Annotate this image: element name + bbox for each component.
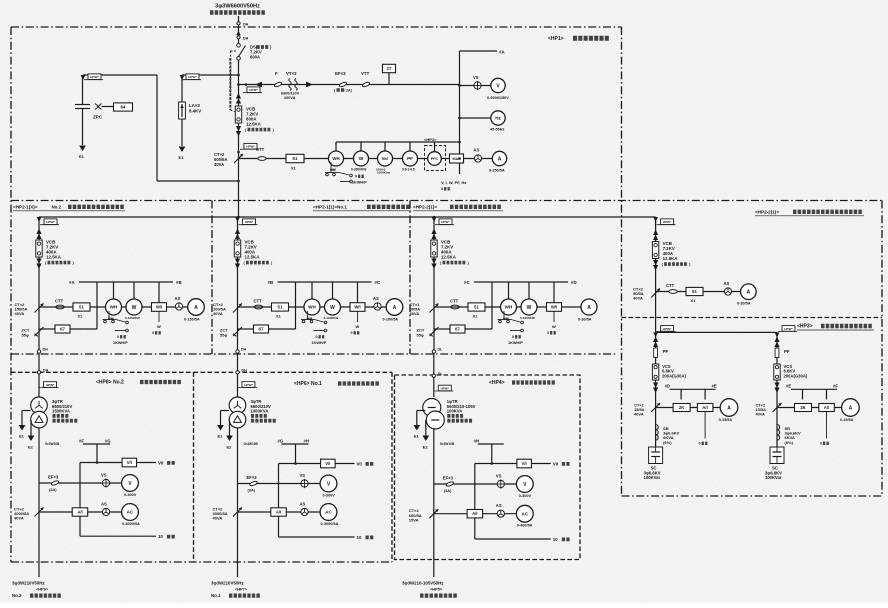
meter W HP2-1X: [126, 299, 142, 315]
svg-text:X1: X1: [473, 314, 479, 319]
wire ZPC branch L down: [156, 75, 158, 181]
svg-text:1500KVA: 1500KVA: [52, 409, 70, 414]
relay box 51 HP2-2(1): [468, 303, 485, 311]
svg-text:40VA: 40VA: [213, 311, 223, 316]
meter Hz HP1: [460, 117, 491, 119]
drawout arrows above VCB HP1: [236, 93, 241, 99]
relay box 27: [383, 64, 396, 72]
drawout arrows above VCB HP2-2(1): [431, 229, 436, 235]
panel border HP2 band bottom: [11, 353, 616, 355]
meter AC HP4: [516, 505, 533, 522]
svg-text:PF: PF: [663, 349, 669, 354]
potential bus HP3 branch 1: [670, 388, 716, 390]
ground E2 HP8: [30, 420, 32, 436]
ground E1 HP6: [221, 410, 230, 412]
svg-text:HPW*: HPW*: [246, 145, 255, 149]
svg-text:0: 0: [117, 335, 119, 339]
svg-text:#E: #E: [786, 384, 791, 389]
ground E1 HP8: [22, 410, 31, 412]
svg-text:W: W: [157, 324, 161, 329]
svg-text:HPW*: HPW*: [249, 88, 258, 92]
meter A HP2-1(1): [386, 299, 403, 316]
svg-text:No.2: No.2: [52, 205, 62, 210]
contact outputs WH HP1: [330, 162, 332, 173]
svg-text:DH: DH: [243, 23, 249, 27]
meter A HP3 branch 2: [842, 399, 860, 417]
svg-text:VS: VS: [496, 474, 502, 479]
svg-text:ZPC: ZPC: [93, 115, 103, 120]
svg-text:0-400/5A: 0-400/5A: [517, 524, 533, 528]
svg-text:X1: X1: [691, 298, 697, 303]
ground E2 HP4: [425, 420, 427, 436]
capacitor ZPC: [75, 104, 90, 106]
drawout arrow up HP3 branch 1: [653, 337, 658, 343]
current transformer HP2-1(1): [233, 304, 242, 313]
svg-text:<HP2-2(1)>: <HP2-2(1)>: [413, 205, 437, 210]
svg-text:W: W: [552, 324, 556, 329]
meter Var HP1: [378, 151, 393, 166]
svg-text:(3A): (3A): [444, 488, 452, 493]
svg-text:HPW*: HPW*: [245, 220, 254, 224]
svg-text:<HP9>: <HP9>: [36, 587, 49, 592]
svg-text:E1: E1: [79, 154, 85, 159]
drawout arrows below VCS HP3 branch 1: [653, 383, 658, 389]
svg-text:3φ3W210V50Hz: 3φ3W210V50Hz: [12, 581, 45, 586]
svg-text:#G: #G: [278, 439, 284, 444]
svg-text:10: 10: [357, 535, 362, 540]
metering wire HP2-2X: [656, 291, 741, 293]
meter A HP3 branch 1: [720, 399, 738, 417]
svg-text:55φ: 55φ: [417, 332, 424, 337]
svg-text:A/I: A/I: [77, 510, 82, 515]
svg-text:A: A: [849, 405, 853, 411]
svg-text:55φ: 55φ: [220, 332, 227, 337]
spark gap ZPC: [95, 104, 102, 110]
svg-text:CTT: CTT: [450, 299, 459, 304]
meter A HP1: [492, 151, 506, 165]
tag HPW LA branch: [182, 79, 201, 81]
svg-text:A: A: [587, 305, 591, 311]
svg-text:64: 64: [121, 105, 126, 110]
svg-text:VS: VS: [300, 473, 306, 478]
svg-text:X1: X1: [78, 314, 84, 319]
zero phase CT HP2-2(1): [430, 327, 439, 336]
node DH upper disconnect point: [237, 22, 240, 25]
svg-text:CTT: CTT: [254, 299, 263, 304]
svg-text:0-1000KW: 0-1000KW: [520, 316, 535, 320]
potential bus wire HP2-2(1): [474, 281, 568, 283]
transducer box A/I HP4: [467, 510, 483, 518]
svg-text:27: 27: [387, 66, 392, 71]
panel border HP1 right / HP2-2X left / HP3 left vertical: [621, 27, 623, 496]
svg-text:0-9000/150V: 0-9000/150V: [487, 96, 509, 100]
wire ZPC branch horizontal: [83, 74, 157, 76]
current transformer CTx2 HP1: [234, 154, 243, 163]
output wire below A/I HP3 branch 2: [826, 412, 828, 439]
meter WH HP2-2(1): [501, 299, 517, 315]
bus HP2 band: [39, 216, 656, 218]
svg-text:1000KVA: 1000KVA: [251, 409, 269, 414]
svg-text:DH: DH: [43, 368, 49, 372]
svg-text:A: A: [393, 305, 397, 311]
contactor VCS HP3 branch 2: [774, 364, 780, 380]
svg-text:Hz: Hz: [495, 116, 501, 121]
node DH lower point: [237, 36, 240, 39]
svg-text:0-15/5A: 0-15/5A: [840, 418, 854, 422]
output wire below A/I HP3 branch 1: [704, 412, 706, 439]
feeder wire HP2-1X: [38, 217, 40, 350]
panel border HP8/HP6 separator: [193, 372, 195, 562]
svg-text:67: 67: [60, 327, 65, 332]
transducer box V/I HP6: [321, 459, 336, 468]
svg-text:10: 10: [553, 537, 558, 542]
svg-text:A: A: [498, 156, 502, 162]
svg-text:DL: DL: [438, 348, 444, 352]
svg-text:2K: 2K: [679, 405, 684, 410]
svg-text:0: 0: [512, 335, 514, 339]
svg-text:#A: #A: [69, 280, 75, 285]
svg-text:0-150/5A: 0-150/5A: [184, 318, 200, 322]
svg-text:#C: #C: [375, 280, 381, 285]
tap arrow HP3 branch 2: [775, 332, 780, 337]
svg-text:40VA: 40VA: [15, 311, 25, 316]
meter WH HP1: [329, 151, 344, 166]
capacitor SC HP3 branch 1: [649, 447, 663, 464]
svg-text:#F: #F: [79, 439, 84, 444]
tap arrow ZPC branch: [81, 75, 86, 80]
svg-text:AC: AC: [127, 510, 134, 515]
circuit breaker VCB HP1: [235, 106, 241, 123]
svg-text:VTT: VTT: [361, 71, 370, 76]
wire LA branch horizontal: [182, 74, 239, 76]
svg-text:E2: E2: [227, 445, 233, 450]
svg-text:#F: #F: [833, 384, 838, 389]
svg-text:HPW*: HPW*: [441, 386, 450, 390]
transducer box A/I HP3 branch 1: [697, 404, 713, 412]
drawout arrows below VCB HP2-1(1): [235, 259, 240, 265]
svg-text:DH: DH: [242, 368, 248, 372]
tag HPW HP2-1(1): [239, 224, 258, 226]
wire LA vertical: [181, 75, 183, 102]
svg-text:A: A: [194, 305, 198, 311]
svg-text:2K: 2K: [800, 405, 805, 410]
series reactor SR HP3 branch 2: [777, 425, 780, 441]
panel border HP6 top: [194, 371, 393, 373]
transducer output W HP2-1(1): [357, 311, 359, 322]
transducer V/I wire HP6: [279, 463, 321, 465]
drawout arrows below VCS HP3 branch 2: [774, 383, 779, 389]
svg-text:EF×3: EF×3: [335, 71, 346, 76]
meter V HP4: [516, 476, 533, 493]
potential bus HP1 meters: [336, 141, 460, 143]
panel border separator HP2-1(1) / HP2-2(1): [409, 201, 411, 355]
svg-text:V, I, W, PF, Hz: V, I, W, PF, Hz: [441, 180, 466, 185]
feeder wire HP3 branch 2: [776, 332, 778, 447]
incoming source label (from refuse incineration plant): [210, 10, 266, 14]
svg-text:0-100/5A: 0-100/5A: [383, 318, 399, 322]
contact outputs WH HP2-1X: [108, 311, 110, 320]
svg-text:0: 0: [316, 335, 318, 339]
panel border HP3 top: [622, 317, 883, 319]
svg-text:#G: #G: [105, 439, 111, 444]
svg-text:1KWH/P: 1KWH/P: [312, 341, 327, 345]
meter WH HP2-1X: [106, 299, 122, 315]
svg-text:WH: WH: [308, 305, 316, 310]
svg-text:#C: #C: [464, 280, 470, 285]
ground E2 HP6: [229, 420, 231, 436]
svg-text:W/I: W/I: [551, 305, 557, 310]
transformer 3phi wye HP6: [229, 397, 246, 414]
transformer 1phi HP4: [423, 399, 441, 417]
transducer box V/I HP8: [122, 458, 137, 467]
drawout arrows below VCB HP2-1X: [36, 259, 41, 265]
tap arrow HP2-2X: [653, 217, 658, 222]
svg-text:#B: #B: [268, 280, 274, 285]
circuit breaker VCB HP2-1(1): [234, 240, 240, 257]
tag HPW ZPC branch: [84, 79, 103, 81]
svg-text:40VA: 40VA: [214, 162, 224, 167]
svg-text:<HP2-2(1)>: <HP2-2(1)>: [755, 210, 779, 215]
transducer V/I wire HP8: [80, 462, 122, 464]
svg-text:12.5KA: 12.5KA: [246, 122, 262, 127]
svg-text:45-55Hz: 45-55Hz: [490, 128, 504, 132]
svg-text:0-1000KW: 0-1000KW: [125, 316, 140, 320]
svg-text:A: A: [727, 405, 731, 411]
transducer box A/I HP6: [271, 508, 287, 516]
current transformer HP2-2X: [651, 289, 660, 298]
svg-text:HPW*: HPW*: [663, 220, 672, 224]
svg-text:1KWH/P: 1KWH/P: [508, 341, 523, 345]
transducer output W HP2-1X: [158, 311, 160, 322]
feeder wire HP2-2X: [655, 217, 657, 332]
arrow up main line: [236, 31, 240, 36]
svg-text:#H: #H: [304, 439, 309, 444]
svg-text:67: 67: [455, 327, 460, 332]
svg-text:W: W: [359, 156, 364, 162]
svg-text:(6%): (6%): [785, 440, 794, 445]
svg-text:40VA: 40VA: [213, 516, 223, 521]
svg-text:W/I: W/I: [354, 305, 360, 310]
svg-text:40VA: 40VA: [633, 296, 643, 301]
meter A HP2-1X: [188, 299, 205, 316]
svg-text:AS: AS: [101, 502, 107, 507]
series reactor SR HP3 branch 1: [656, 425, 659, 441]
svg-text:0-300V: 0-300V: [519, 494, 532, 498]
entry node HP6: [236, 371, 239, 374]
panel border outer left: [10, 27, 12, 562]
tag HPW HP8: [40, 387, 59, 389]
capacitor SC HP3 branch 2: [770, 447, 784, 464]
svg-text:PF: PF: [784, 349, 790, 354]
svg-text:0: 0: [699, 442, 701, 446]
svg-text:WH: WH: [332, 156, 339, 161]
wire ZPC vertical: [82, 75, 84, 104]
svg-text:40VA: 40VA: [756, 412, 766, 417]
svg-text:55φ: 55φ: [22, 332, 29, 337]
svg-text:V/I: V/I: [127, 460, 132, 465]
tap arrow HP2-2(1): [432, 217, 437, 222]
svg-text:A/I: A/I: [702, 405, 707, 410]
potential bus wire HP2-1X: [79, 281, 173, 283]
fuse EFx3 wire HP4: [434, 483, 517, 485]
svg-text:A/I: A/I: [276, 510, 281, 515]
svg-text:DH: DH: [43, 348, 49, 352]
svg-text:W: W: [356, 324, 360, 329]
svg-text:<HP2-1(X)>: <HP2-1(X)>: [13, 205, 38, 210]
relay box 51 HP1: [286, 154, 304, 162]
panel exit node HP2-1X: [37, 350, 40, 353]
meter A HP2-2(1): [581, 299, 597, 315]
svg-text:WH: WH: [110, 305, 118, 310]
svg-text:(6%): (6%): [663, 440, 672, 445]
svg-text:51: 51: [474, 305, 479, 310]
panel border HP1 outer top: [11, 26, 622, 28]
panel border bottom outer: [11, 561, 392, 563]
tag HPW HP3 branch 2: [778, 330, 797, 332]
feeder wire HP3 branch 1: [655, 332, 657, 447]
wire transformer secondary HP8: [38, 428, 40, 577]
fuse EFx3 wire HP8: [39, 482, 122, 484]
svg-text:HPW*: HPW*: [46, 383, 55, 387]
current transformer HP4: [429, 509, 438, 518]
wire transformer secondary HP4: [433, 428, 435, 577]
svg-text:200A(G30A): 200A(G30A): [662, 373, 686, 378]
svg-text:A/I: A/I: [824, 405, 829, 410]
ground E1 HP4: [417, 410, 426, 412]
svg-text:51: 51: [692, 289, 697, 294]
svg-text:PFC: PFC: [431, 157, 439, 161]
tap arrow HP2-1(1): [235, 217, 240, 222]
svg-text:#A: #A: [499, 50, 505, 55]
svg-text:0: 0: [152, 331, 154, 335]
svg-text:3φ3W6600V50Hz: 3φ3W6600V50Hz: [215, 4, 260, 10]
svg-text:CTT: CTT: [256, 147, 265, 152]
potential bus wire HP2-1(1): [278, 281, 372, 283]
svg-text:W/I: W/I: [156, 305, 162, 310]
svg-text:0: 0: [547, 331, 549, 335]
svg-text:12.5KA: 12.5KA: [663, 256, 679, 261]
meter W HP2-1(1): [325, 299, 341, 315]
bus HP3: [656, 331, 777, 333]
wire LA to ground: [181, 119, 183, 146]
current transformer HP3 branch 1: [651, 403, 660, 412]
circuit breaker VCB HP2-2(1): [431, 240, 437, 257]
drawout arrows below VCB HP1: [236, 126, 241, 132]
feeder wire into HP8: [38, 353, 40, 397]
svg-text:#D: #D: [665, 384, 670, 389]
earth relay box 67 HP2-1X: [39, 328, 55, 330]
svg-text:E2: E2: [423, 445, 429, 450]
svg-text:AS: AS: [474, 148, 480, 153]
svg-text:AC: AC: [521, 511, 528, 516]
transformer 3phi delta HP8: [31, 411, 48, 428]
wire incoming main line upper: [238, 16, 240, 44]
fuse EFx3 wire HP6: [238, 483, 321, 485]
svg-text:No.1: No.1: [211, 593, 221, 598]
svg-text:X1: X1: [291, 166, 297, 171]
svg-text:V0: V0: [553, 461, 559, 466]
svg-text:40VA: 40VA: [634, 412, 644, 417]
svg-text:VS: VS: [101, 473, 107, 478]
svg-text:40VA: 40VA: [14, 516, 24, 521]
zero phase CT HP2-1(1): [233, 327, 242, 336]
svg-text:AS: AS: [724, 281, 730, 286]
transducer box 2K HP3 branch 1: [673, 404, 690, 412]
wire transformer secondary HP6: [237, 428, 239, 577]
panel border separator HP2-1X / HP2-1(1): [211, 201, 213, 355]
wire VT secondary vertical: [459, 51, 461, 174]
svg-text:HPW*: HPW*: [46, 220, 55, 224]
tag HPW VT branch: [243, 92, 262, 94]
meter AC HP6: [320, 504, 337, 521]
svg-text:0-4000/5A: 0-4000/5A: [122, 522, 140, 526]
ground E1 ZPC: [79, 146, 86, 152]
meter V HP1: [491, 78, 505, 92]
wire main line DS to bus: [238, 60, 240, 217]
panel border HP3 bottom: [622, 495, 883, 497]
current transformer HP3 branch 2: [773, 403, 782, 412]
relay box 51 HP2-1(1): [272, 303, 289, 311]
svg-text:E1: E1: [179, 155, 185, 160]
entry node HP4: [432, 374, 435, 377]
svg-text:8.4KV: 8.4KV: [189, 109, 201, 114]
svg-text:2A): 2A): [346, 89, 353, 93]
svg-text:12.5KA: 12.5KA: [441, 255, 457, 260]
tag HPW HP3 branch 1: [657, 330, 676, 332]
svg-text:Gr3W10B: Gr3W10B: [440, 442, 455, 446]
svg-text:EF×3: EF×3: [48, 475, 59, 480]
svg-text:1KWH/P: 1KWH/P: [113, 341, 128, 345]
svg-text:HPW*: HPW*: [663, 327, 672, 331]
tag HPW HP2-2X: [657, 224, 676, 226]
earth relay box 67 HP2-1(1): [238, 328, 254, 330]
svg-text:No.2: No.2: [12, 593, 22, 598]
svg-text:200VA: 200VA: [284, 96, 296, 100]
svg-text:E1: E1: [218, 434, 224, 439]
meter W HP1: [354, 151, 369, 166]
tap arrow LA branch: [180, 75, 185, 80]
feeder wire into HP6: [237, 353, 239, 397]
panel border HP2 band top: [11, 200, 882, 202]
relay box 51 HP2-2X: [686, 287, 703, 295]
panel border HP8 top: [11, 371, 194, 373]
circuit breaker VCB HP2-2X: [652, 242, 658, 259]
svg-text:1KWH/P: 1KWH/P: [352, 181, 367, 185]
tap arrow HP2-1X: [37, 217, 42, 222]
panel exit node HP2-2(1): [432, 350, 435, 353]
ammeter wire HP6: [238, 511, 320, 513]
current transformer HP2-1X: [35, 304, 44, 313]
svg-text:6600/110V: 6600/110V: [281, 92, 300, 96]
svg-text:100KVA: 100KVA: [447, 409, 463, 414]
wire VT branch: [239, 84, 460, 86]
panel border HP6 right: [391, 372, 393, 562]
earth relay box 67 HP2-2(1): [434, 328, 450, 330]
svg-text:V/I: V/I: [522, 461, 527, 466]
svg-text:V/I: V/I: [325, 461, 330, 466]
metering wire HP2-2(1): [434, 306, 581, 308]
current transformer HP2-2(1): [430, 304, 439, 313]
svg-text:Var: Var: [382, 156, 389, 161]
svg-text:100KVar: 100KVar: [765, 475, 782, 480]
meter WH HP2-1(1): [304, 299, 320, 315]
svg-text:<HP3>: <HP3>: [424, 137, 437, 142]
svg-text:F: F: [275, 71, 278, 76]
potential bus HP3 branch 2: [791, 388, 837, 390]
svg-text:100KVar: 100KVar: [644, 475, 661, 480]
svg-text:<HP1>: <HP1>: [548, 36, 564, 42]
svg-text:PF: PF: [407, 156, 413, 161]
